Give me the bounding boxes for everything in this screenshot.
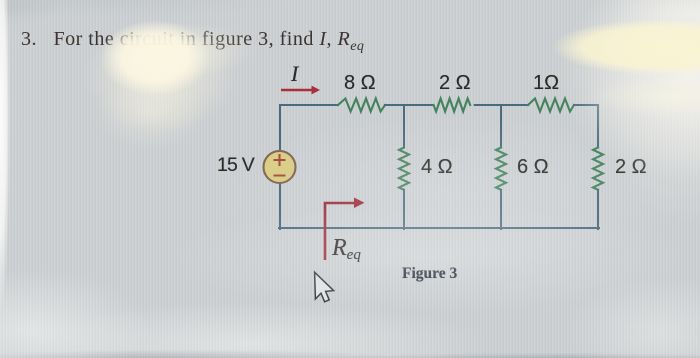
wire: left branch upper (source top) — [279, 105, 281, 151]
wire: left branch lower (source bottom) — [279, 184, 281, 229]
label 8 ohm — [344, 72, 376, 95]
label 1 ohm — [533, 72, 559, 95]
label 2 ohm right — [615, 156, 647, 179]
label 4 ohm — [421, 156, 453, 179]
voltage source 15V circle — [264, 151, 296, 183]
wire: 2ohm right to bottom-right corner — [597, 190, 599, 229]
wire: bottom rail — [279, 227, 599, 229]
wire: 2ohm to node B — [475, 104, 528, 106]
resistor 6ohm (vertical zigzag) — [496, 148, 506, 190]
label Req — [332, 235, 361, 262]
label 2 ohm top — [439, 72, 471, 95]
caption Figure 3 — [402, 265, 457, 283]
wire: node B down to 6ohm — [500, 105, 502, 148]
mouse cursor — [315, 272, 334, 302]
problem statement title — [21, 28, 364, 55]
wire: 4ohm to bottom — [403, 190, 405, 229]
current arrow I — [281, 86, 320, 95]
wire: 6ohm to bottom — [500, 190, 502, 229]
resistor R 8ohm (horizontal zigzag) — [338, 99, 385, 112]
resistor 4ohm (vertical zigzag) — [399, 148, 409, 190]
label 15 V — [217, 154, 254, 177]
resistor 2ohm top (horizontal zigzag) — [434, 99, 471, 112]
resistor 2ohm right (vertical zigzag) — [593, 148, 603, 190]
label 6 ohm — [517, 156, 549, 179]
resistor 1ohm (horizontal zigzag) — [528, 99, 574, 112]
Req arrow (red) — [325, 198, 365, 261]
label I (current) — [291, 61, 298, 87]
wire: top-left corner to 8ohm — [280, 104, 338, 106]
wire: node A down to 4ohm — [403, 105, 405, 148]
wire: 8ohm to node A — [385, 104, 434, 106]
wire: top-right corner down to 2ohm right — [597, 105, 599, 148]
wire: 1ohm to top-right corner — [574, 104, 598, 106]
